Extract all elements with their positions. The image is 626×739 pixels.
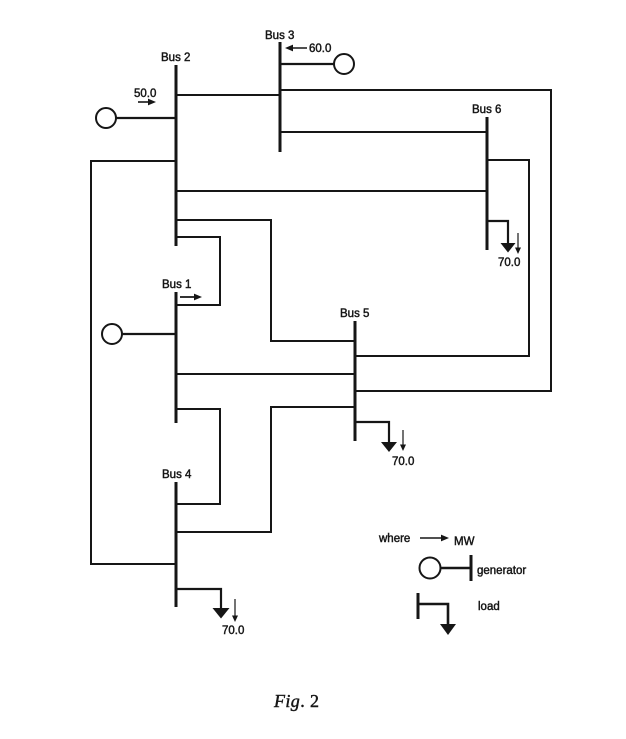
svg-text:MW: MW — [454, 536, 475, 548]
bus 2 bar — [175, 65, 178, 246]
generator G1 lead wire — [122, 333, 176, 335]
wire bus2-bus3 — [176, 94, 280, 96]
svg-text:60.0: 60.0 — [309, 43, 331, 55]
svg-text:Bus 2: Bus 2 — [161, 52, 190, 64]
svg-text:generator: generator — [477, 565, 526, 577]
generator G2 flow arrow — [138, 99, 156, 106]
bus 3 bar — [279, 42, 282, 152]
load at bus 5 — [355, 422, 406, 452]
bus 5 bar — [354, 321, 357, 441]
bus 4 bar — [175, 482, 178, 607]
wire bus2-bus5 — [176, 220, 355, 341]
svg-text:where: where — [378, 533, 410, 545]
load at bus 4 — [176, 589, 238, 622]
legend: load symbol — [418, 593, 456, 635]
generator G2 circle — [96, 108, 116, 128]
wire bus1-bus5 — [176, 373, 355, 375]
bus 6 bar — [486, 117, 489, 250]
wire bus2-bus1 — [176, 237, 220, 305]
wire bus2-bus6 — [176, 190, 487, 192]
wire bus3-bus5 — [280, 90, 551, 391]
wire bus2-bus4 — [91, 161, 176, 564]
legend: generator symbol — [420, 555, 472, 581]
generator G3 circle — [334, 54, 354, 74]
generator G1 circle — [102, 324, 122, 344]
wire bus1-bus4 — [176, 409, 220, 504]
svg-text:70.0: 70.0 — [498, 257, 520, 269]
generator G2 lead wire — [116, 117, 176, 119]
svg-text:50.0: 50.0 — [134, 88, 156, 100]
svg-text:load: load — [478, 601, 500, 613]
load at bus 6 — [487, 221, 521, 254]
svg-text:70.0: 70.0 — [222, 625, 244, 637]
wire bus3-bus6 — [280, 131, 487, 133]
generator G3 flow arrow — [285, 45, 307, 52]
bus 1 injection arrow — [180, 294, 202, 301]
svg-text:Bus 3: Bus 3 — [265, 30, 294, 42]
svg-text:Bus 6: Bus 6 — [472, 104, 501, 116]
svg-text:70.0: 70.0 — [392, 456, 414, 468]
wire bus6-bus5 — [355, 160, 529, 356]
svg-text:Bus 1: Bus 1 — [162, 279, 191, 291]
svg-text:Fig. 2: Fig. 2 — [273, 691, 319, 711]
svg-text:Bus 5: Bus 5 — [340, 308, 369, 320]
wire bus4-bus5 — [176, 407, 355, 532]
generator G3 lead wire — [280, 63, 334, 65]
bus 1 bar — [175, 292, 178, 423]
svg-text:Bus 4: Bus 4 — [162, 469, 192, 481]
